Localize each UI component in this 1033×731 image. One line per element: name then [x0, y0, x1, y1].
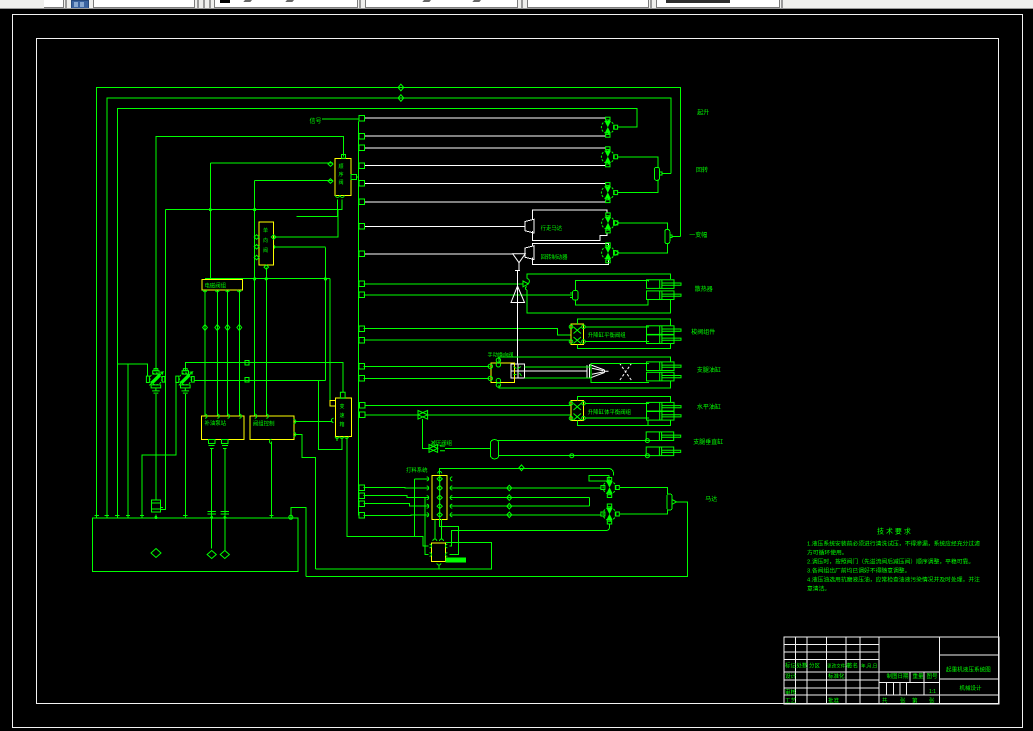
- aux valve ports: [254, 235, 276, 270]
- svg-text:马达: 马达: [705, 495, 717, 503]
- white line 2: [365, 135, 606, 137]
- group5 pilot line lower: [499, 455, 646, 457]
- svg-text:信号: 信号: [310, 117, 322, 125]
- group1 loop wires: [575, 281, 648, 305]
- wire loop 3: [117, 108, 637, 517]
- title block middle small cells: [886, 672, 924, 695]
- square markers on pump lines: [245, 360, 249, 382]
- pump P2: [176, 369, 194, 394]
- wire bus line B3 (503.7): [363, 504, 428, 507]
- cylinder group 2 shuttle: [647, 326, 682, 335]
- svg-text:支腿油缸: 支腿油缸: [697, 366, 721, 374]
- white nozzle arrow: [587, 365, 609, 379]
- svg-text:起升: 起升: [697, 109, 709, 117]
- gearbox ports: [331, 392, 348, 438]
- svg-text:标准化: 标准化: [828, 672, 845, 680]
- svg-text:梭阀组件: 梭阀组件: [691, 328, 715, 336]
- pump station bottom T fittings: [209, 439, 229, 448]
- cylinder group 1 radiator: [647, 280, 682, 289]
- wire control box drain to tank: [271, 442, 273, 518]
- svg-text:向: 向: [263, 237, 268, 244]
- svg-text:回转制动器: 回转制动器: [541, 253, 569, 261]
- cylinder group 5 vertical outrigger: [646, 432, 681, 441]
- svg-text:工艺: 工艺: [785, 698, 797, 705]
- reducing valve on line P: [418, 411, 428, 420]
- damper component D1: [654, 167, 659, 180]
- svg-text:打料系统: 打料系统: [406, 466, 428, 474]
- svg-text:处数: 处数: [797, 662, 809, 670]
- brake box highlight: [446, 557, 466, 562]
- white loop 1 walk motor: [525, 210, 607, 241]
- group1 left component: [573, 291, 578, 301]
- wire bus line O (405.4): [364, 404, 571, 406]
- wire brake right port2 loop: [440, 519, 459, 554]
- valve control box ports: [255, 414, 296, 444]
- white X symbol: [620, 363, 632, 381]
- wire aux valve bottom to control box: [265, 267, 267, 416]
- svg-text:技 术 要 求: 技 术 要 求: [877, 527, 911, 536]
- motor M6 feed a: [603, 478, 619, 498]
- svg-text:分区: 分区: [809, 662, 821, 670]
- wire pump2 suction: [142, 381, 176, 518]
- pump P1: [146, 369, 164, 394]
- wire M6 right to check: [620, 488, 668, 495]
- tank strainer 3: [220, 512, 229, 559]
- damper component D2: [665, 230, 670, 244]
- brake valve box: [431, 543, 445, 561]
- wire sequence valve return A: [166, 200, 343, 210]
- balance valve box 1: [571, 324, 583, 344]
- title block left grid rows: [784, 645, 879, 696]
- wire block bottom to brake box: [435, 519, 442, 569]
- wire bus line B1 (487.5): [363, 487, 428, 490]
- group2 loop wires: [577, 319, 670, 348]
- svg-text:设计: 设计: [785, 672, 797, 680]
- wire aux valve port2: [274, 246, 326, 248]
- wire block port3 drop: [425, 498, 428, 555]
- wire bus line N (378.4): [363, 377, 489, 379]
- svg-text:标记: 标记: [785, 662, 797, 670]
- balance valve 1 port circles: [569, 325, 573, 329]
- wire left riser 4: [127, 364, 129, 517]
- wire solenoid box crossover: [205, 247, 330, 279]
- svg-text:水平油缸: 水平油缸: [697, 403, 721, 411]
- pilot line circles: [645, 439, 649, 443]
- feed block internal spine and diamonds: [437, 476, 442, 519]
- svg-text:3.各阀组出厂前均已调好不得随意调整。: 3.各阀组出厂前均已调好不得随意调整。: [807, 567, 910, 575]
- cylinder group 3 lift: [647, 362, 682, 371]
- wire aux valve port1: [274, 210, 338, 237]
- wire line I drop to cyl2: [527, 290, 671, 313]
- group4 work lines: [585, 403, 649, 418]
- wire M2-M3 coupling to damper: [618, 157, 658, 193]
- wire solenoid box top pilot: [210, 163, 333, 280]
- gearbox box: [335, 398, 351, 436]
- wire pump2 delivery to feed block: [195, 380, 342, 449]
- main pilot bus: [358, 122, 360, 516]
- wire control box out2 step: [294, 434, 316, 569]
- feed main valve block: [432, 476, 447, 520]
- white pilot drop line: [515, 271, 520, 365]
- feed block right port circles: [450, 477, 452, 517]
- wire solenoid outputs to pump station: [205, 290, 239, 416]
- wire pump1 suction w/ filter: [155, 394, 157, 518]
- svg-text:起重机液压系统图: 起重机液压系统图: [946, 666, 991, 674]
- white line 6: [365, 201, 606, 203]
- tank strainer 2: [207, 512, 216, 559]
- wire block to motors line 2: [450, 497, 590, 499]
- svg-text:支腿垂直缸: 支腿垂直缸: [693, 438, 723, 446]
- wire M7 right to check: [620, 510, 668, 514]
- wire pilot from aux valve to line: [324, 247, 326, 380]
- white line 3: [365, 147, 606, 149]
- tank vent circle: [289, 515, 293, 519]
- motor M3 slew b: [601, 183, 617, 203]
- svg-text:重量: 重量: [913, 672, 925, 680]
- aux pilot valve box: [259, 222, 274, 265]
- wire M6-M7 series link: [589, 498, 591, 507]
- tank rectangle: [92, 518, 298, 571]
- suction filter F1: [152, 500, 161, 512]
- white pilot line to arrow: [525, 370, 587, 372]
- white line 4: [365, 165, 606, 167]
- title block outline: [784, 637, 999, 704]
- diamond markers on pump station feeds: [203, 325, 242, 331]
- solenoid box bottom ports: [203, 290, 241, 292]
- svg-text:序: 序: [339, 171, 344, 178]
- wire sequence valve return B: [297, 200, 338, 217]
- svg-text:方可循环使用。: 方可循环使用。: [807, 549, 848, 557]
- motor M4 arrow port: [614, 221, 619, 226]
- wire pump1 left feed: [117, 364, 147, 376]
- svg-text:散热器: 散热器: [695, 285, 713, 293]
- svg-text:升降缸平衡阀组: 升降缸平衡阀组: [588, 331, 626, 339]
- feed block left port circles: [427, 471, 442, 516]
- wire reducing branch drop: [423, 419, 429, 448]
- svg-text:顺: 顺: [339, 164, 344, 170]
- diamond markers top rails: [398, 84, 404, 101]
- svg-text:机械设计: 机械设计: [960, 684, 983, 692]
- wire block to motors line 3: [450, 505, 590, 507]
- title block left grid columns: [796, 637, 940, 704]
- accumulator: [490, 440, 498, 459]
- motor M7 feed b: [603, 504, 619, 524]
- wire filter side branch: [161, 210, 166, 510]
- diamond on S: [519, 465, 524, 471]
- wire bus line K (328.5): [363, 329, 571, 335]
- sequence valve ports: [328, 155, 357, 198]
- svg-text:2.调压时，按照阀门（先溢流阀后减压阀）顺序调整，平稳可靠。: 2.调压时，按照阀门（先溢流阀后减压阀）顺序调整，平稳可靠。: [807, 558, 974, 566]
- wire signal line: [322, 118, 358, 120]
- wire accumulator top out: [496, 440, 498, 442]
- wire bus line J (294.8): [363, 294, 572, 296]
- wire M4-M5 coupling to damper: [619, 223, 668, 253]
- brake box ports: [430, 539, 448, 565]
- svg-text:回转: 回转: [696, 166, 708, 174]
- svg-text:1:1: 1:1: [929, 689, 936, 695]
- diamonds on motor feed lines: [507, 485, 512, 517]
- wire gearbox drop to brake line: [337, 437, 428, 547]
- svg-text:制图日期: 制图日期: [887, 672, 910, 680]
- sequence valve box: [335, 158, 351, 195]
- svg-text:意清洁。: 意清洁。: [807, 585, 830, 593]
- white inline filter triangle: [513, 254, 526, 271]
- wire bus line P (414.8): [364, 414, 571, 416]
- pilot box internal marks: [514, 367, 522, 377]
- connector squares on bus: [359, 116, 365, 519]
- svg-text:单: 单: [263, 227, 268, 234]
- balance valve 2 internals: [574, 404, 582, 421]
- svg-text:签名: 签名: [847, 662, 858, 670]
- wire block to motors line 1: [450, 487, 601, 489]
- wire bus line M (366): [363, 365, 489, 367]
- motor M5 luffing b: [602, 243, 618, 263]
- white line 5: [365, 182, 606, 184]
- wire control box out1 to gearbox: [294, 420, 332, 422]
- svg-text:批准: 批准: [828, 697, 840, 705]
- wire block port1 drop: [414, 479, 428, 537]
- wire block to motors line 4: [450, 514, 601, 516]
- svg-text:1.液压系统安装前必须进行清洗试压，不得渗漏，系统应经充分过: 1.液压系统安装前必须进行清洗试压，不得渗漏，系统应经充分过滤: [807, 540, 980, 548]
- motor M5 arrow port: [614, 251, 619, 256]
- manual valve port circles: [488, 364, 492, 368]
- gearbox yellow left square: [330, 401, 335, 406]
- white line 7: [365, 225, 526, 227]
- svg-text:一变幅: 一变幅: [689, 231, 707, 239]
- group4 loop wires: [577, 397, 670, 426]
- balance valve 2 port circles: [569, 402, 573, 406]
- wire bus line I (283.9): [363, 283, 523, 285]
- svg-text:电磁阀组: 电磁阀组: [205, 282, 227, 290]
- balance valve box 2: [571, 401, 583, 421]
- wire line I riser to cyl1: [527, 274, 671, 279]
- brake release cap on M6: [589, 475, 609, 481]
- svg-text:审核: 审核: [785, 688, 797, 696]
- white filter triangle: [511, 286, 525, 303]
- junction dots: [154, 208, 327, 519]
- svg-text:升降缸体平衡阀组: 升降缸体平衡阀组: [588, 408, 632, 416]
- manual directional valve box: [491, 363, 514, 383]
- motor M4 luffing a: [602, 213, 618, 233]
- wire feed pilot S: [440, 468, 614, 475]
- svg-text:年,月,日: 年,月,日: [861, 663, 877, 670]
- svg-text:阀: 阀: [339, 179, 344, 186]
- title block middle rows: [879, 672, 940, 695]
- wire inner bottom rail: [316, 542, 492, 569]
- svg-text:共: 共: [882, 697, 888, 705]
- wire bus line B2 (495.6): [363, 496, 428, 498]
- manual valve leader: [497, 356, 499, 359]
- toolbar strip: [0, 0, 1033, 9]
- wire pump2 pressure to gearbox: [185, 363, 342, 393]
- white loop 2 swing motor: [525, 243, 608, 264]
- wire M7 bottom return: [450, 525, 610, 547]
- solenoid valve group box: [202, 280, 242, 290]
- tank strainer 1: [151, 549, 161, 558]
- svg-text:阀组控制: 阀组控制: [253, 420, 275, 428]
- wire to accumulator: [445, 447, 490, 449]
- pump2 strainer drop: [184, 394, 186, 518]
- svg-text:4.液压油选用抗磨液压油，应常检查油液污染情况并及时处理，并: 4.液压油选用抗磨液压油，应常检查油液污染情况并及时处理，并注: [807, 576, 980, 584]
- tank inlet ticks: [95, 515, 274, 517]
- wire valve control top pilot: [255, 180, 334, 416]
- wire pump1 pressure riser to sequence valve: [156, 137, 344, 371]
- oil pump station box: [202, 416, 244, 439]
- cylinder group 4 outrigger: [647, 402, 682, 411]
- motor M1 hoist: [601, 117, 617, 137]
- wire bus line B4 (515.3): [363, 514, 428, 517]
- check valve on line I: [523, 279, 529, 290]
- svg-text:箱: 箱: [340, 421, 345, 428]
- wire tank vent step: [291, 507, 306, 576]
- svg-text:阀: 阀: [263, 247, 268, 254]
- wire outer loop (top rail 1 to right rail): [97, 88, 681, 518]
- svg-text:速: 速: [340, 413, 345, 419]
- svg-text:图号: 图号: [927, 672, 939, 680]
- balance valve 1 internals: [574, 327, 582, 344]
- pump station ports: [205, 414, 241, 418]
- reducing valve 2: [429, 445, 445, 453]
- white line 1: [365, 117, 606, 119]
- svg-text:行走马达: 行走马达: [541, 224, 563, 232]
- svg-text:变: 变: [340, 403, 345, 410]
- wire sequence valve to bus: [357, 176, 359, 178]
- wire gearbox left pilot: [329, 279, 331, 402]
- feed check component: [667, 494, 672, 510]
- wire pump station drains to tank: [212, 448, 225, 550]
- motor M2 slew a: [601, 147, 617, 167]
- group5 pilot line upper: [497, 440, 645, 442]
- group3 loop wires: [499, 357, 671, 388]
- wire bottom return rail: [306, 502, 687, 576]
- wire bus line L (340): [363, 339, 571, 341]
- valve control box: [250, 416, 294, 439]
- svg-text:张: 张: [929, 697, 935, 705]
- svg-text:第: 第: [912, 697, 918, 705]
- group3 work lines: [525, 363, 649, 382]
- svg-text:补油泵站: 补油泵站: [205, 419, 227, 427]
- wire loop 2: [107, 98, 671, 518]
- group2 work lines: [585, 327, 649, 342]
- white pilot valve box: [511, 364, 525, 378]
- gearbox right connector squares: [360, 403, 366, 418]
- title block right rows: [940, 655, 999, 695]
- white line 8: [365, 253, 513, 255]
- svg-text:张: 张: [900, 697, 906, 705]
